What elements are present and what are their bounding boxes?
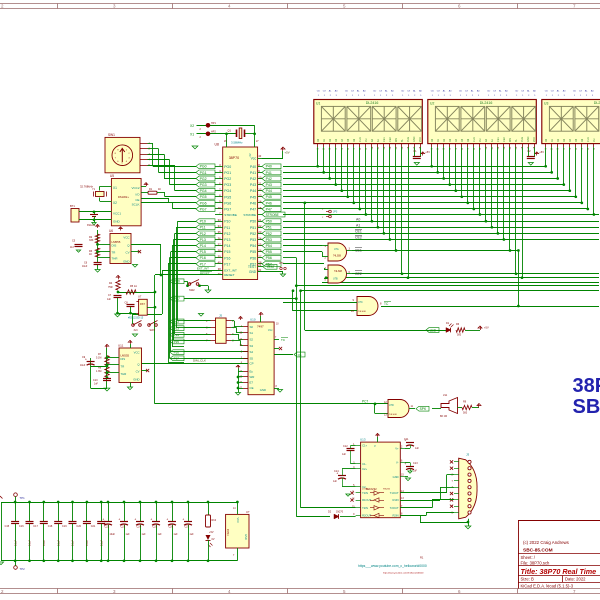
svg-text:U10: U10 (250, 318, 256, 322)
svg-text:P45: P45 (250, 195, 256, 199)
svg-text:GND: GND (527, 136, 530, 142)
svg-text:36: 36 (218, 236, 222, 240)
svg-text:DL2416: DL2416 (594, 101, 600, 105)
svg-text:CX: CX (407, 91, 411, 93)
svg-text:CX: CX (351, 91, 355, 93)
svg-text:CV: CV (136, 370, 140, 374)
svg-text:P13: P13 (224, 238, 230, 242)
svg-text:CX: CX (551, 91, 555, 93)
svg-text:CX: CX (579, 91, 583, 93)
svg-text:C26: C26 (169, 526, 174, 529)
svg-text:P14: P14 (224, 244, 230, 248)
svg-text:TEST: TEST (267, 265, 275, 269)
svg-text:22: 22 (258, 224, 262, 228)
svg-text:CE2: CE2 (503, 137, 506, 142)
svg-text:C1+: C1+ (362, 444, 367, 448)
svg-text:JP3: JP3 (333, 211, 338, 214)
svg-text:1uF: 1uF (174, 533, 179, 536)
svg-text:WR: WR (509, 138, 512, 142)
svg-text:34: 34 (218, 224, 222, 228)
svg-text:STROBE: STROBE (266, 213, 279, 217)
svg-text:R5 1A: R5 1A (130, 285, 137, 288)
svg-text:38P70: 38P70 (229, 156, 239, 160)
svg-text:VCC: VCC (236, 518, 240, 524)
svg-text:26: 26 (258, 249, 262, 253)
svg-text:10uF: 10uF (80, 365, 86, 367)
svg-text:P12: P12 (174, 320, 180, 324)
svg-text:TP2: TP2 (20, 567, 26, 571)
svg-text:1uF: 1uF (415, 448, 420, 450)
svg-text:P15: P15 (200, 250, 206, 254)
svg-text:P17: P17 (174, 357, 180, 361)
svg-text:13: 13 (258, 194, 262, 198)
svg-text:Vcc: Vcc (251, 157, 257, 161)
svg-text:CE: CE (250, 386, 254, 390)
svg-text:CD: CD (345, 91, 349, 93)
svg-text:+: + (150, 518, 152, 522)
svg-text:S1: S1 (250, 331, 254, 335)
svg-text:PG6: PG6 (200, 201, 207, 205)
svg-text:https;⁄⁄www.youtube.com⁄c⁄hell: https;⁄⁄www.youtube.com⁄c⁄helloworld0000 (383, 572, 424, 575)
svg-text:74LS08: 74LS08 (334, 271, 343, 273)
svg-text:VCC2: VCC2 (131, 186, 139, 190)
svg-text:VCC: VCC (419, 137, 422, 142)
svg-text:P43: P43 (250, 183, 256, 187)
svg-text:TC: TC (384, 302, 389, 306)
svg-text:P13: P13 (174, 327, 180, 331)
svg-text:C25: C25 (153, 526, 158, 529)
svg-text:CE1: CE1 (497, 137, 500, 142)
svg-text:EXT_INT: EXT_INT (224, 269, 237, 273)
svg-text:+5V: +5V (484, 326, 489, 330)
svg-text:Qe: Qe (298, 353, 302, 357)
svg-text:U6: U6 (109, 229, 113, 233)
svg-text:GND: GND (113, 220, 121, 224)
svg-text:35: 35 (218, 230, 222, 234)
svg-text:P16: P16 (224, 256, 230, 260)
svg-text:P54: P54 (266, 244, 272, 248)
svg-text:C1: C1 (413, 149, 417, 153)
svg-text:1N270: 1N270 (336, 511, 344, 514)
svg-text:8R 1W: 8R 1W (440, 416, 448, 418)
svg-text:37: 37 (218, 242, 222, 246)
svg-text:SPK: SPK (420, 407, 427, 411)
svg-text:27: 27 (258, 255, 262, 259)
svg-text:DS1302+: DS1302+ (118, 195, 129, 199)
svg-text:T1IN: T1IN (362, 491, 368, 495)
svg-text:A1: A1 (356, 224, 360, 228)
svg-text:CLR: CLR (473, 137, 476, 142)
svg-text:24: 24 (258, 236, 262, 240)
svg-text:1uF: 1uF (142, 533, 147, 536)
svg-text:RESET: RESET (224, 273, 234, 277)
svg-text:0V: 0V (212, 538, 215, 541)
svg-text:T2IN: T2IN (362, 506, 368, 510)
svg-text:P54: P54 (250, 244, 256, 248)
svg-text:10: 10 (258, 175, 262, 179)
svg-text:RESET: RESET (200, 271, 210, 275)
svg-text:15: 15 (258, 206, 262, 210)
svg-text:P52: P52 (250, 232, 256, 236)
svg-text:P12: P12 (200, 232, 206, 236)
svg-text:R1: R1 (420, 556, 424, 560)
svg-text:KiCad E.D.A. kicad (5.1.5)-3: KiCad E.D.A. kicad (5.1.5)-3 (521, 583, 574, 588)
svg-text:GND: GND (393, 475, 399, 479)
svg-text:P42: P42 (250, 177, 256, 181)
svg-text:25: 25 (258, 242, 262, 246)
svg-text:PG0: PG0 (224, 165, 231, 169)
svg-text:38: 38 (218, 249, 222, 253)
svg-text:P50: P50 (266, 220, 272, 224)
svg-text:VCC: VCC (134, 351, 140, 355)
svg-text:P16: P16 (200, 256, 206, 260)
svg-text:CE2: CE2 (355, 236, 362, 240)
svg-text:DIM_CLK: DIM_CLK (193, 359, 206, 363)
svg-text:PG3: PG3 (224, 183, 231, 187)
svg-text:CD: CD (401, 91, 405, 93)
svg-text:1nF: 1nF (94, 384, 99, 386)
svg-text:X1: X1 (113, 186, 117, 190)
svg-text:PG3: PG3 (200, 183, 207, 187)
svg-text:P43: P43 (266, 183, 272, 187)
svg-text:39: 39 (218, 255, 222, 259)
svg-text:RS232: RS232 (383, 489, 390, 491)
svg-text:C21: C21 (91, 525, 96, 528)
svg-text:3.58MHz: 3.58MHz (231, 141, 243, 145)
svg-text:File: 38P70.sch: File: 38P70.sch (521, 560, 551, 565)
svg-text:U?: U? (246, 510, 250, 514)
svg-text:S3: S3 (250, 344, 254, 348)
svg-text:Title: 38P70 Real Time: Title: 38P70 Real Time (521, 567, 597, 576)
svg-text:P11: P11 (200, 226, 206, 230)
svg-text:33: 33 (218, 218, 222, 222)
svg-text:P55: P55 (266, 250, 272, 254)
svg-text:PG6: PG6 (224, 201, 231, 205)
svg-text:P42: P42 (266, 177, 272, 181)
svg-text:S0: S0 (250, 325, 254, 329)
svg-text:P12: P12 (224, 232, 230, 236)
svg-text:T1OUT: T1OUT (390, 491, 399, 495)
svg-text:PG7: PG7 (224, 208, 231, 212)
svg-text:CE1: CE1 (383, 137, 386, 142)
svg-text:U1: U1 (316, 102, 320, 106)
svg-text:I/O: I/O (135, 193, 140, 197)
svg-text:CP: CP (250, 361, 254, 365)
svg-text:C1-: C1- (362, 462, 366, 466)
svg-text:CD: CD (373, 91, 377, 93)
svg-text:#DS1233D-15: #DS1233D-15 (128, 317, 144, 320)
svg-text:C20: C20 (76, 525, 81, 528)
svg-text:S5: S5 (250, 356, 254, 360)
svg-text:C12: C12 (343, 445, 348, 448)
svg-text:U7C: U7C (358, 301, 363, 304)
svg-text:1uF: 1uF (190, 533, 195, 536)
svg-text:75R: 75R (108, 286, 113, 289)
svg-text:A0: A0 (356, 217, 360, 221)
svg-text:GND: GND (123, 260, 129, 264)
svg-text:SBC-85.COM: SBC-85.COM (523, 548, 553, 554)
svg-text:SW1: SW1 (108, 133, 115, 137)
svg-text:0.1uF: 0.1uF (72, 539, 75, 546)
svg-text:P15: P15 (224, 250, 230, 254)
svg-text:P17: P17 (224, 262, 230, 266)
svg-text:10: 10 (218, 206, 222, 210)
svg-text:P53: P53 (266, 238, 272, 242)
svg-text:500: 500 (463, 412, 468, 415)
svg-text:CD: CD (431, 91, 435, 93)
svg-text:PG5: PG5 (200, 195, 207, 199)
svg-text:GND: GND (413, 136, 416, 142)
svg-text:U7B: U7B (333, 278, 338, 281)
svg-text:PG5: PG5 (224, 195, 231, 199)
svg-text:1uF: 1uF (158, 533, 163, 536)
svg-text:23: 23 (258, 230, 262, 234)
svg-text:P16: P16 (174, 351, 180, 355)
svg-text:P40: P40 (266, 165, 272, 169)
svg-text:500: 500 (457, 334, 462, 337)
svg-text:1uF: 1uF (342, 454, 347, 456)
svg-text:4K: 4K (158, 188, 161, 191)
svg-text:DIS: DIS (112, 244, 117, 248)
svg-text:+5V: +5V (425, 150, 430, 154)
svg-text:PG7: PG7 (200, 207, 207, 211)
svg-text:CLR: CLR (359, 137, 362, 142)
svg-text:Ey: Ey (250, 370, 254, 374)
svg-text:P46: P46 (266, 201, 272, 205)
svg-text:C14: C14 (334, 470, 339, 473)
svg-text:X2: X2 (190, 124, 194, 128)
svg-text:CE1: CE1 (355, 249, 362, 253)
svg-text:38P70: 38P70 (573, 375, 600, 397)
svg-text:U5: U5 (110, 174, 114, 178)
svg-text:14: 14 (258, 200, 262, 204)
svg-text:1K: 1K (89, 253, 92, 256)
svg-text:P15: P15 (174, 340, 180, 344)
svg-text:Vcc: Vcc (268, 328, 273, 332)
svg-text:THR: THR (121, 372, 127, 376)
svg-text:CX: CX (379, 91, 383, 93)
svg-text:P14: P14 (200, 244, 206, 248)
svg-text:CU: CU (365, 138, 368, 142)
svg-text:WR: WR (395, 138, 398, 142)
svg-text:C11: C11 (404, 438, 409, 441)
svg-text:P47: P47 (266, 207, 272, 211)
svg-text:PC7: PC7 (362, 400, 368, 404)
svg-text:PG1: PG1 (224, 171, 231, 175)
svg-text:C23: C23 (121, 526, 126, 529)
svg-text:P50: P50 (250, 220, 256, 224)
svg-text:LS1: LS1 (443, 394, 448, 397)
svg-text:C2: C2 (527, 149, 531, 153)
svg-text:P41: P41 (266, 171, 272, 175)
svg-text:U7: U7 (138, 295, 142, 299)
svg-text:74LS08: 74LS08 (389, 414, 397, 416)
svg-text:HP1: HP1 (211, 122, 216, 125)
svg-text:CUE: CUE (521, 137, 524, 142)
svg-text:0.1uF: 0.1uF (29, 539, 32, 546)
svg-text:PG2: PG2 (224, 177, 231, 181)
svg-text:74x04: 74x04 (226, 528, 230, 536)
svg-text:P44: P44 (266, 189, 272, 193)
svg-text:LOGIC: LOGIC (362, 489, 369, 491)
svg-text:C24: C24 (137, 526, 142, 529)
svg-text:0.1uF: 0.1uF (100, 539, 103, 546)
svg-text:P55: P55 (250, 250, 256, 254)
svg-text:C17: C17 (33, 525, 38, 528)
svg-text:V-: V- (396, 461, 399, 465)
svg-text:CD: CD (459, 91, 463, 93)
svg-text:11: 11 (258, 181, 261, 185)
svg-text:5.1M: 5.1M (96, 357, 101, 360)
svg-text:CU: CU (479, 138, 482, 142)
svg-text:0.1uF: 0.1uF (43, 539, 46, 546)
svg-text:10uF: 10uF (110, 533, 116, 536)
svg-text:U2: U2 (430, 102, 434, 106)
svg-text:CLR: CLR (587, 137, 590, 142)
svg-text:THR: THR (112, 257, 118, 261)
svg-text:P46: P46 (250, 201, 256, 205)
svg-text:KS1220: KS1220 (87, 225, 96, 227)
svg-text:U11: U11 (118, 344, 124, 348)
svg-text:C15: C15 (5, 525, 10, 528)
svg-text:LED: LED (430, 328, 437, 332)
svg-text:TR: TR (112, 251, 116, 255)
svg-text:R1IN: R1IN (392, 498, 398, 502)
svg-text:P51: P51 (250, 226, 256, 230)
svg-text:C2+: C2+ (362, 467, 367, 471)
svg-text:BT1: BT1 (70, 204, 75, 208)
svg-text:X1: X1 (190, 132, 194, 136)
svg-text:PG4: PG4 (224, 189, 231, 193)
svg-text:C13: C13 (413, 462, 418, 465)
svg-text:CUE: CUE (407, 137, 410, 142)
svg-text:CD: CD (317, 91, 321, 93)
svg-text:P52: P52 (266, 232, 272, 236)
svg-text:1uF: 1uF (107, 299, 112, 301)
svg-text:U8: U8 (215, 143, 219, 147)
svg-text:0.1uF: 0.1uF (86, 539, 89, 546)
svg-text:P10: P10 (224, 220, 230, 224)
svg-text:CD: CD (573, 91, 577, 93)
svg-text:SCLK: SCLK (132, 203, 140, 207)
svg-text:C16: C16 (19, 525, 24, 528)
svg-text:VCC1: VCC1 (113, 212, 121, 216)
svg-text:1uF: 1uF (413, 471, 418, 473)
svg-text:EXT_INT: EXT_INT (197, 266, 209, 270)
svg-text:1uF: 1uF (333, 481, 338, 483)
svg-text:SW3: SW3 (150, 329, 156, 332)
svg-text:P44: P44 (250, 189, 256, 193)
svg-text:CE2: CE2 (389, 137, 392, 142)
svg-text:CE: CE (135, 198, 139, 202)
svg-text:+: + (166, 518, 168, 522)
svg-text:P41: P41 (250, 171, 256, 175)
svg-text:+: + (134, 518, 136, 522)
svg-text:R10: R10 (212, 519, 217, 522)
svg-text:+5V: +5V (209, 531, 214, 534)
svg-text:GND: GND (260, 388, 266, 392)
svg-text:+5V: +5V (285, 151, 290, 155)
svg-text:1.3M: 1.3M (96, 370, 101, 373)
svg-text:GND: GND (244, 534, 248, 540)
svg-text:S4: S4 (250, 350, 254, 354)
svg-text:Size: B: Size: B (521, 577, 534, 582)
svg-text:E7: E7 (250, 381, 254, 385)
svg-text:C10: C10 (93, 379, 98, 382)
svg-text:P47: P47 (250, 208, 256, 212)
svg-text:7497: 7497 (257, 325, 264, 329)
svg-text:VCC: VCC (533, 137, 536, 142)
svg-text:+: + (182, 518, 184, 522)
svg-text:GND: GND (249, 270, 257, 274)
svg-text:P10: P10 (200, 220, 206, 224)
svg-text:DL2416: DL2416 (480, 101, 493, 105)
svg-text:U3: U3 (544, 102, 548, 106)
svg-text:C27: C27 (185, 526, 190, 529)
svg-text:40: 40 (218, 261, 222, 265)
svg-text:P56: P56 (266, 256, 272, 260)
svg-text:10uF: 10uF (82, 266, 88, 268)
svg-text:21: 21 (258, 218, 262, 222)
svg-text:P51: P51 (266, 226, 272, 230)
svg-text:CX: CX (493, 91, 497, 93)
svg-text:C19: C19 (62, 525, 67, 528)
svg-text:(c) 2022 Craig Andrews: (c) 2022 Craig Andrews (523, 540, 570, 545)
svg-text:TEST: TEST (248, 265, 256, 269)
svg-text:CU: CU (593, 138, 596, 142)
svg-text:P45: P45 (266, 195, 272, 199)
svg-text:P40: P40 (250, 165, 256, 169)
svg-text:CV: CV (125, 251, 129, 255)
svg-text:1uF: 1uF (126, 533, 131, 536)
svg-text:Date: 2022: Date: 2022 (565, 577, 586, 582)
svg-text:CD: CD (545, 91, 549, 93)
svg-text:CX: CX (437, 91, 441, 93)
svg-text:DIS: DIS (121, 357, 126, 361)
svg-text:J5: J5 (219, 314, 222, 318)
svg-text:+: + (118, 518, 120, 522)
svg-text:DL2416: DL2416 (366, 101, 379, 105)
svg-text:STROBE: STROBE (243, 213, 256, 217)
svg-text:R2IN: R2IN (392, 514, 398, 518)
svg-text:CX: CX (323, 91, 327, 93)
svg-text:T2OUT: T2OUT (390, 506, 399, 510)
svg-text:P53: P53 (250, 238, 256, 242)
svg-text:PG2: PG2 (200, 177, 207, 181)
svg-text:C22: C22 (105, 526, 110, 529)
svg-text:TP1: TP1 (20, 496, 26, 500)
svg-text:TR: TR (121, 365, 125, 369)
svg-text:GND: GND (133, 378, 139, 382)
svg-text:U7A: U7A (334, 248, 339, 251)
svg-text:S2: S2 (250, 338, 254, 342)
svg-text:+: + (85, 358, 87, 362)
svg-text:JP4: JP4 (279, 261, 284, 265)
svg-text:STROBE: STROBE (224, 213, 237, 217)
svg-text:V: V (374, 444, 376, 448)
svg-text:+: + (102, 518, 104, 522)
svg-text:X2: X2 (113, 201, 117, 205)
svg-text:HP2: HP2 (211, 131, 216, 134)
svg-text:PG4: PG4 (200, 189, 207, 193)
svg-text:PG0: PG0 (200, 165, 207, 169)
svg-text:12: 12 (258, 188, 262, 192)
svg-text:P56: P56 (250, 256, 256, 260)
svg-text:CD: CD (515, 91, 519, 93)
svg-text:3v3: 3v3 (134, 329, 139, 332)
svg-text:CX: CX (521, 91, 525, 93)
svg-text:Sheet: /: Sheet: / (521, 555, 536, 560)
